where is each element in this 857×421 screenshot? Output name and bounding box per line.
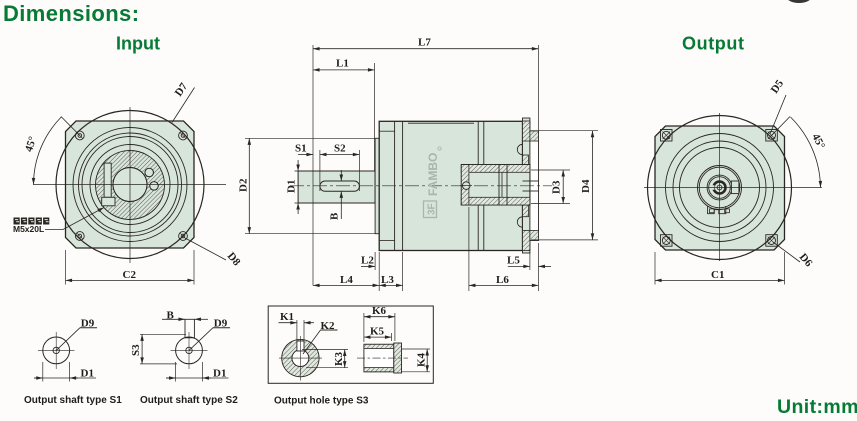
- svg-text:Unit:mm: Unit:mm: [777, 396, 857, 418]
- ring r57: [73, 128, 187, 242]
- svg-text:D9: D9: [81, 318, 95, 330]
- column small hatch lower: [523, 205, 529, 217]
- column hatch bottom: [523, 231, 530, 251]
- output flange square: [655, 126, 785, 250]
- svg-text:L7: L7: [418, 37, 431, 49]
- bracket square right: [725, 209, 730, 213]
- dim L6 line: [469, 284, 539, 286]
- svg-text:Output shaft type S1: Output shaft type S1: [24, 395, 122, 406]
- dim D2 ext top: [245, 137, 375, 139]
- S3 crosshair: [279, 357, 322, 359]
- dim D1 line: [297, 160, 299, 171]
- center line: [290, 185, 552, 187]
- svg-text:D3: D3: [551, 180, 563, 194]
- svg-text:Dimensions:: Dimensions:: [3, 1, 139, 26]
- body divider line 1 lower: [477, 205, 479, 251]
- svg-text:Output: Output: [682, 34, 745, 54]
- center circle: [717, 185, 722, 190]
- ring keyway notch: [711, 185, 714, 190]
- dim L6 ext line: [468, 207, 470, 291]
- dim L4/L3 line: [313, 284, 379, 286]
- output centerline horizontal: [644, 187, 822, 189]
- hub inner line 2: [506, 165, 508, 205]
- hub circle r22: [698, 166, 742, 210]
- svg-text:FAMBO: FAMBO: [426, 153, 440, 196]
- svg-text:L2: L2: [361, 255, 374, 267]
- bore circle: [113, 168, 147, 202]
- dim L7 extension left: [312, 45, 314, 286]
- svg-text:K5: K5: [370, 326, 385, 338]
- flange column line 2: [402, 121, 404, 250]
- cylinder centerline: [357, 357, 408, 359]
- hub circle tick: [460, 185, 472, 187]
- dim D2 line: [248, 138, 250, 233]
- hub top wall hatch: [461, 165, 530, 173]
- hub inner line 1: [498, 165, 500, 205]
- svg-text:M5x20L: M5x20L: [13, 224, 44, 234]
- logo 3F box: [424, 201, 438, 218]
- S2 crosshair: [171, 349, 208, 351]
- leader D5: [770, 95, 786, 134]
- corner hole BR: [766, 235, 778, 247]
- S1 center circle: [53, 347, 59, 353]
- svg-text:3F: 3F: [427, 203, 438, 215]
- cylinder bottom wall: [364, 368, 394, 372]
- output centerline vertical: [719, 113, 721, 261]
- leader D6: [773, 242, 800, 262]
- S2 D1 ext lines: [175, 362, 177, 382]
- svg-text:K6: K6: [372, 305, 387, 317]
- output flange column: [523, 118, 530, 253]
- svg-text:D7: D7: [173, 80, 191, 98]
- S2 B dim: [162, 318, 185, 320]
- ring r46.5: [673, 141, 766, 234]
- dim L2 ext lines: [374, 252, 376, 270]
- S1 crosshair: [38, 349, 75, 351]
- svg-text:B: B: [329, 212, 341, 220]
- K1 dim: [279, 322, 297, 324]
- chinese note glyph blocks: [14, 218, 50, 225]
- ring r48: [82, 137, 178, 233]
- dim B line: [340, 191, 342, 219]
- column small hatch upper: [523, 155, 529, 167]
- S3 cylinder body: [364, 344, 394, 372]
- svg-text:45°: 45°: [23, 135, 39, 153]
- corner hole BL: [661, 235, 673, 247]
- dim L7 line: [313, 48, 538, 50]
- svg-text:D5: D5: [769, 77, 787, 95]
- svg-text:K4: K4: [416, 352, 428, 367]
- flange step top: [379, 130, 394, 132]
- body divider line 2 upper: [483, 121, 485, 164]
- bottom bracket: [708, 206, 726, 214]
- bracket square left: [710, 209, 715, 213]
- boss hatch top: [530, 131, 539, 141]
- dim L3 line: [379, 284, 402, 286]
- S3 key slot: [297, 341, 304, 351]
- centerline vertical: [129, 107, 131, 263]
- front plate: [375, 138, 379, 233]
- svg-text:D1: D1: [81, 368, 94, 380]
- S3 box: [268, 306, 433, 383]
- cylinder top wall: [364, 344, 394, 348]
- input outer circle: [56, 111, 204, 259]
- 45 deg arc: [34, 117, 62, 185]
- boss hatch bottom: [530, 231, 539, 241]
- S2 key tab: [185, 319, 194, 338]
- shaft hole line bottom: [523, 190, 539, 192]
- ring r51.5: [79, 133, 182, 236]
- gearbox body: [379, 121, 522, 250]
- screw hole TL: [75, 131, 84, 140]
- input shaft: [298, 171, 375, 203]
- body top notch: [408, 122, 474, 124]
- svg-text:S1: S1: [295, 143, 307, 155]
- dark ring: [714, 182, 726, 194]
- small circle a: [145, 168, 153, 176]
- dim L1 line: [313, 69, 375, 71]
- corner hole TR: [766, 130, 778, 142]
- small circle b: [150, 182, 158, 190]
- svg-text:C2: C2: [123, 269, 137, 281]
- S1 D9 leader: [56, 328, 80, 351]
- hub left wall hatch: [461, 165, 469, 205]
- centerline horizontal: [33, 184, 226, 186]
- S2 circle: [176, 337, 203, 364]
- corner hole TL: [661, 130, 673, 142]
- ring r40: [90, 145, 170, 225]
- flange column line 1: [394, 121, 396, 250]
- hub bottom wall hatch: [461, 197, 530, 205]
- dim L5 ext lines: [529, 252, 531, 270]
- dim D3 line: [562, 170, 564, 204]
- dim D4 ext lines: [531, 130, 598, 132]
- svg-text:Output hole type S3: Output hole type S3: [274, 396, 369, 407]
- dim D4 line: [592, 131, 594, 240]
- leader D7: [172, 88, 195, 123]
- K3 ext lines: [302, 349, 348, 351]
- body divider line 1 upper: [477, 121, 479, 164]
- S1 circle: [43, 337, 70, 364]
- K6 ext lines: [363, 313, 365, 342]
- output outer circle: [648, 116, 792, 260]
- output pilot boss: [530, 131, 539, 241]
- dim L7 extension right: [537, 45, 539, 131]
- K4 dim: [426, 349, 428, 372]
- bolt semicircle lower: [517, 217, 522, 227]
- svg-text:D4: D4: [580, 179, 592, 193]
- K4 ext lines: [402, 348, 431, 350]
- screw hole BL: [75, 232, 84, 241]
- svg-text:D1: D1: [213, 368, 226, 380]
- svg-text:L4: L4: [340, 274, 353, 286]
- dim S2 line: [320, 154, 360, 156]
- ring r40: [680, 148, 760, 228]
- screw hole TR: [179, 131, 188, 140]
- dim L5 line: [508, 265, 530, 267]
- dim L1 ext right: [374, 63, 376, 171]
- dim B arrow top: [340, 170, 342, 181]
- svg-text:D1: D1: [286, 180, 298, 193]
- S2 D1 dim: [166, 377, 229, 379]
- keyway block: [104, 163, 111, 197]
- screw hole BR: [179, 232, 188, 241]
- K5 ext line: [391, 333, 393, 341]
- S2 center circle: [186, 347, 192, 353]
- K5 dim: [364, 336, 392, 338]
- hub left circle: [462, 182, 470, 190]
- input flange square: [66, 121, 195, 248]
- svg-text:L1: L1: [336, 58, 349, 70]
- logo registered mark: [438, 147, 441, 150]
- C2 dimension line: [66, 279, 195, 281]
- dim L3 ext: [402, 252, 404, 291]
- svg-text:S2: S2: [334, 143, 346, 155]
- bolt semicircle upper: [517, 144, 522, 154]
- body divider line 2 lower: [483, 205, 485, 251]
- K6 dim: [364, 316, 395, 318]
- cropped logo blob top right: [786, 0, 812, 3]
- keyway foot block: [102, 197, 115, 206]
- K2 leader: [321, 329, 338, 331]
- hub circle r10.8: [709, 177, 731, 199]
- output hub outline: [461, 165, 530, 205]
- svg-text:L6: L6: [496, 274, 509, 286]
- S3 inner hole: [292, 350, 309, 367]
- S3 hatched circle: [282, 339, 319, 376]
- svg-text:D2: D2: [238, 178, 250, 192]
- cylinder end cap: [394, 343, 402, 373]
- svg-text:L5: L5: [507, 255, 520, 267]
- 45 arc right: [791, 117, 821, 188]
- flange step bottom: [379, 240, 394, 242]
- svg-text:Input: Input: [116, 34, 160, 54]
- svg-text:Output shaft type S2: Output shaft type S2: [140, 395, 238, 406]
- shaft hole line top: [523, 180, 539, 182]
- dim D3 ext lines: [531, 169, 570, 171]
- svg-text:K1: K1: [280, 311, 294, 323]
- svg-text:K3: K3: [333, 351, 345, 366]
- svg-text:S3: S3: [130, 344, 142, 356]
- S2 D9 leader: [189, 328, 213, 351]
- note leader: [45, 208, 104, 230]
- hatched clamp disc: [96, 151, 165, 220]
- column hatch top: [523, 121, 530, 141]
- S1 D1 dim: [34, 377, 96, 379]
- svg-text:D9: D9: [214, 318, 228, 330]
- K1 ext lines: [296, 320, 298, 341]
- K3 dim: [344, 350, 346, 368]
- C1 dim line: [655, 279, 785, 281]
- S1 D1 ext lines: [42, 362, 44, 382]
- ring r54: [666, 134, 774, 242]
- dim S1 line: [298, 154, 313, 156]
- svg-text:B: B: [167, 310, 175, 322]
- hub inner line 3: [501, 172, 503, 197]
- dim D2 ext bottom: [245, 233, 375, 235]
- svg-text:L3: L3: [381, 274, 394, 286]
- shaft keyway slot: [320, 181, 360, 191]
- dim L2 line: [361, 265, 375, 267]
- svg-text:D8: D8: [225, 250, 243, 268]
- leader D8: [185, 238, 226, 260]
- svg-text:C1: C1: [711, 269, 724, 281]
- dim L5 counter arrow: [538, 265, 551, 267]
- S2 S3 ext lines: [140, 333, 186, 335]
- C1 ext lines: [654, 252, 656, 285]
- 45 deg radial line: [61, 117, 80, 136]
- right notch rect: [731, 181, 739, 194]
- hub circle r12.4: [707, 175, 732, 200]
- 45 radial line right: [772, 117, 791, 136]
- S2 S3 dim: [141, 334, 143, 364]
- dim S2 ext lines: [319, 150, 321, 191]
- svg-text:D6: D6: [797, 251, 815, 269]
- C2 extension lines: [65, 250, 67, 285]
- hub circle r20.3: [699, 167, 740, 208]
